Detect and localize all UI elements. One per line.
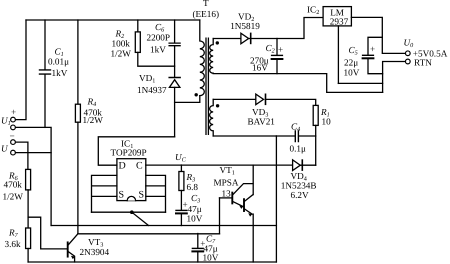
wire C2 bottom [276,60,278,74]
svg-text:TOP209P: TOP209P [111,148,147,158]
transistor VT3 [68,234,78,262]
svg-text:+: + [278,45,283,55]
capacitor C5 [363,55,374,58]
svg-text:BAV21: BAV21 [248,117,276,127]
capacitor C6 [169,43,180,46]
wire VD2 to IC2 [249,18,322,39]
wire IC2 out [351,17,405,53]
svg-text:1/2W: 1/2W [83,115,104,125]
wire R2 column [137,20,139,32]
wire secondary return [213,74,382,93]
wire aux ground column [275,136,277,262]
svg-text:1/2W: 1/2W [111,49,132,59]
svg-text:+: + [370,44,375,54]
wire VD1 to drain [174,87,176,136]
IC2 LM2937 [323,7,351,26]
wire RTN [383,62,406,93]
wire C7 tap [197,234,199,248]
wire U1- to source drop [16,127,52,225]
wire secondary top lead [213,38,241,40]
svg-text:10V: 10V [187,214,203,224]
svg-text:3.6k: 3.6k [5,239,21,249]
wire C7 bottom [197,252,199,262]
wire R2 to clamp node [138,52,175,66]
svg-text:RTN: RTN [414,58,432,68]
svg-text:0.1μ: 0.1μ [290,144,306,154]
svg-text:D: D [119,161,126,172]
transformer secondary top winding [210,39,214,74]
wire source diagonal [132,212,149,225]
resistor R2 [135,32,140,53]
wire VT1 base column [219,198,221,234]
svg-text:470k: 470k [4,180,23,190]
capacitor C7 [192,248,203,251]
node source junction [130,210,134,214]
svg-text:1kV: 1kV [52,68,68,78]
wire R1 bottom [315,125,317,165]
svg-text:0.01μ: 0.01μ [48,57,69,67]
svg-text:1N5234B: 1N5234B [281,181,317,191]
diode VD2 [241,33,251,44]
wire C1 column top [44,20,46,69]
wire C3 bottom [180,214,182,225]
svg-text:1/2W: 1/2W [3,192,24,202]
capacitor C2 [272,55,283,59]
wire clamp column top [174,20,176,42]
capacitor C1 [40,70,51,74]
wire R4 column [77,20,79,104]
wire VD3 to R1 [266,99,316,105]
svg-text:16V: 16V [252,63,268,73]
wire Uc line [146,164,293,166]
terminal U1 minus [11,125,16,130]
svg-text:(EE16): (EE16) [193,9,220,19]
IC1 source comb left [92,175,117,212]
svg-text:1N4937: 1N4937 [137,85,167,95]
terminal U1 plus [11,117,16,122]
wire R3 to C3 [180,191,182,210]
wire C1 column bottom [44,75,46,128]
wire C5 positive [368,37,382,54]
wire clamp mid [174,46,176,77]
wire feedback top lead [213,98,256,100]
wire feedback line [78,233,220,235]
svg-text:1N5819: 1N5819 [230,21,260,31]
resistor R4 [75,104,80,122]
svg-text:T: T [203,0,209,8]
IC1 source comb right [146,175,166,212]
IC1 TOP209P body [117,159,146,201]
wire C5 negative [368,59,383,73]
wire gnd link [338,82,382,84]
svg-text:22μ: 22μ [344,58,358,68]
wire source rail [51,225,276,227]
wire U- join [16,152,52,154]
svg-text:13: 13 [222,189,232,199]
resistor R6 [26,169,31,190]
wire IC2 gnd pin [337,26,339,84]
diode VD3 [256,94,266,105]
svg-text:+: + [11,107,16,117]
diode VD1 [169,78,180,88]
svg-text:1kV: 1kV [150,45,166,55]
svg-text:10: 10 [322,117,332,127]
terminal U minus [11,150,16,155]
wire C2 tap [276,39,278,55]
svg-text:MPSA: MPSA [214,178,239,188]
wire primary bottom lead [175,96,200,103]
terminal U plus [11,140,16,145]
transformer primary winding [200,20,205,96]
transformer core [206,38,208,134]
svg-text:10V: 10V [344,68,360,78]
wire U sense [16,142,28,169]
wire R6-R7 link [27,190,29,228]
wire R4 to VT3 collector [77,122,79,234]
wire R7 bottom [27,249,29,263]
svg-text:6.8: 6.8 [187,182,199,192]
svg-text:−: − [10,131,15,141]
IC1 source bottom bar [92,211,166,213]
svg-text:10V: 10V [203,253,219,263]
diode VD4 [293,160,303,171]
svg-text:S: S [119,190,125,201]
wire drain path [98,137,174,165]
wire feedback bottom lead [213,135,276,137]
wire VD4 cathode [300,164,315,166]
IC1 notch [127,196,135,200]
wire top rail [26,19,200,21]
wire VT1 collector bus [252,165,254,195]
svg-text:2937: 2937 [330,17,349,27]
wire bottom rail [28,261,276,263]
svg-text:100k: 100k [112,39,131,49]
svg-text:6.2V: 6.2V [291,190,309,200]
svg-text:47μ: 47μ [188,204,202,214]
node secondary bottom dot [216,104,219,107]
wire U1+ riser [16,20,26,120]
wire divider tap to VT3 base [28,217,67,249]
terminal +5V [405,51,410,56]
wire VT1 emitter down [252,214,254,262]
node primary dot [195,93,198,96]
svg-text:S: S [139,190,145,201]
resistor R1 [313,105,318,125]
transistor VT1 darlington [220,184,254,217]
terminal RTN [405,59,410,64]
capacitor C4 [276,131,315,142]
svg-text:C: C [136,161,143,172]
resistor R7 [26,228,31,249]
node secondary top dot [216,41,219,44]
svg-text:2N3904: 2N3904 [80,247,110,257]
wire R3 tap [180,165,182,172]
resistor R3 [179,172,184,191]
svg-text:2200P: 2200P [147,33,171,43]
transformer secondary bottom winding [210,99,214,136]
capacitor C3 [176,210,187,213]
